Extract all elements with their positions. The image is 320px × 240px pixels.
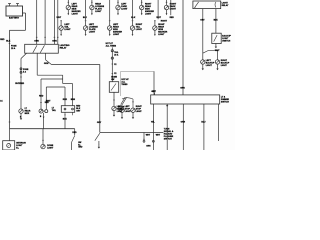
- svg-text:BLU: BLU: [201, 121, 206, 123]
- svg-text:WHT/RED: WHT/RED: [15, 83, 24, 85]
- svg-text:MARKER: MARKER: [113, 31, 123, 34]
- svg-text:GRY: GRY: [152, 91, 157, 93]
- svg-text:LIGHT: LIGHT: [89, 32, 96, 34]
- svg-text:15 A: 15 A: [11, 47, 16, 50]
- svg-text:LIGHT: LIGHT: [125, 111, 132, 113]
- svg-text:REAR: REAR: [145, 5, 151, 8]
- svg-text:MARKER: MARKER: [72, 10, 82, 13]
- svg-text:ORN: ORN: [52, 41, 57, 43]
- svg-text:C2: C2: [114, 64, 116, 66]
- svg-text:BATTERY: BATTERY: [9, 17, 20, 20]
- svg-text:MKR: MKR: [25, 113, 30, 115]
- svg-text:LIGHT: LIGHT: [121, 9, 128, 11]
- svg-text:RED: RED: [45, 102, 50, 104]
- svg-text:GRN: GRN: [34, 41, 39, 43]
- svg-text:C2: C2: [114, 73, 116, 75]
- svg-text:TIMES: TIMES: [121, 84, 128, 86]
- svg-text:MARKER: MARKER: [158, 31, 168, 34]
- svg-text:WHT: WHT: [215, 50, 220, 52]
- svg-text:GRN: GRN: [180, 87, 185, 89]
- svg-text:LIGHT: LIGHT: [136, 29, 143, 31]
- svg-text:SW: SW: [111, 79, 114, 81]
- svg-text:RELAY: RELAY: [222, 4, 229, 7]
- svg-text:RED: RED: [63, 99, 68, 101]
- svg-text:BLK: BLK: [6, 41, 11, 43]
- svg-text:BLK: BLK: [83, 17, 88, 19]
- svg-text:REAR: REAR: [158, 25, 164, 28]
- svg-text:LIGHT: LIGHT: [136, 111, 143, 113]
- svg-text:TAIL: TAIL: [136, 25, 141, 28]
- svg-text:WHT: WHT: [156, 17, 161, 19]
- svg-text:LIGHT: LIGHT: [145, 14, 152, 16]
- svg-text:LIGHT: LIGHT: [158, 34, 165, 36]
- svg-text:BRN: BRN: [71, 99, 76, 101]
- svg-text:GRN: GRN: [146, 145, 151, 147]
- svg-text:BLK: BLK: [131, 17, 136, 19]
- svg-text:SWITCH: SWITCH: [164, 138, 172, 140]
- svg-text:20 A: 20 A: [114, 53, 119, 56]
- svg-text:RIGHT: RIGHT: [161, 21, 168, 23]
- svg-text:RED: RED: [39, 95, 44, 97]
- svg-text:LIGHT: LIGHT: [95, 11, 102, 13]
- svg-text:BLK: BLK: [214, 20, 219, 22]
- svg-text:RED: RED: [170, 17, 175, 19]
- svg-text:RED: RED: [0, 39, 5, 41]
- svg-text:REAR: REAR: [72, 5, 78, 8]
- svg-text:LIGHT: LIGHT: [64, 29, 71, 31]
- svg-text:PLATE: PLATE: [95, 8, 102, 11]
- svg-text:SWITCH: SWITCH: [222, 41, 230, 43]
- svg-text:LIGHT: LIGHT: [113, 34, 120, 36]
- svg-text:GRY: GRY: [97, 122, 102, 124]
- svg-text:SWITCH: SWITCH: [221, 102, 229, 104]
- svg-text:PARK: PARK: [121, 5, 127, 8]
- svg-text:RED: RED: [72, 132, 77, 134]
- svg-text:LIGHT: LIGHT: [47, 147, 54, 149]
- svg-text:LIGHT: LIGHT: [206, 65, 213, 67]
- svg-text:GND: GND: [78, 147, 83, 149]
- svg-text:RELAY: RELAY: [60, 47, 67, 50]
- svg-text:MARKER: MARKER: [145, 10, 155, 13]
- svg-text:LIGHT: LIGHT: [221, 65, 228, 67]
- svg-text:TAIL: TAIL: [64, 25, 69, 28]
- svg-text:REAR: REAR: [95, 2, 101, 5]
- svg-text:PLATE: PLATE: [89, 28, 96, 31]
- svg-text:LIGHT: LIGHT: [72, 14, 79, 16]
- svg-text:GRN: GRN: [181, 121, 186, 123]
- svg-text:GRN: GRN: [44, 63, 49, 65]
- svg-text:WHT: WHT: [57, 17, 62, 19]
- svg-text:ALL TIMES: ALL TIMES: [106, 45, 117, 48]
- svg-text:REAR: REAR: [113, 25, 119, 28]
- svg-text:GRY: GRY: [200, 20, 205, 22]
